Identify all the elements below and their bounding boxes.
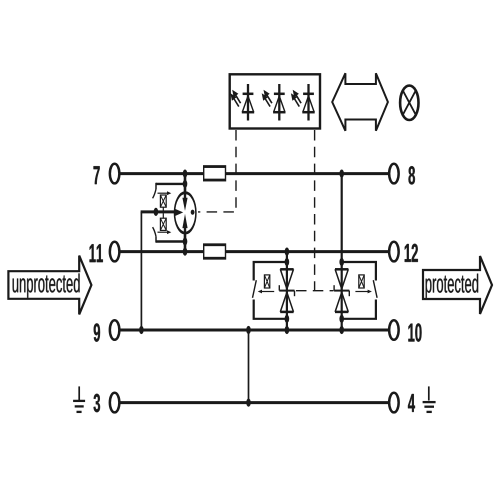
- junction: left branch / row 9-10: [139, 326, 144, 334]
- wire: GDT column: [184, 174, 187, 252]
- disconnect switch for T1 (left): [254, 262, 287, 281]
- pin label 8: [409, 166, 415, 184]
- junction: T1 column / row 11-12: [285, 248, 290, 256]
- LED D1 emission arrows: [236, 95, 241, 103]
- thermal fuse box for T2: [359, 275, 364, 288]
- pin label 7: [94, 166, 100, 184]
- LED D3 triangle: [303, 96, 314, 112]
- LED D2 triangle: [274, 96, 285, 112]
- suppressor column T2: [341, 174, 343, 330]
- LED D3 emission arrows: [296, 95, 301, 103]
- pin label 10: [408, 323, 421, 341]
- junction: GDT column / row 11-12: [183, 248, 188, 256]
- junction: T2 bracket bottom: [339, 315, 344, 323]
- LED D3 vertical lead: [307, 84, 309, 121]
- terminal 4: [389, 393, 399, 413]
- junction: link / row 9-10: [246, 326, 251, 334]
- status double arrow: [332, 73, 388, 131]
- wire row 9-10: [120, 329, 388, 332]
- junction: T2 bracket top: [339, 258, 344, 266]
- protected banner arrow: [423, 256, 492, 314]
- actuation arrow for T1: [261, 291, 274, 293]
- LED D2 emission arrows: [267, 95, 272, 103]
- GDT top electrode arrow: [184, 193, 186, 199]
- LED D1 vertical lead: [247, 84, 249, 121]
- GDT thermal fuse box bottom: [160, 218, 166, 230]
- pin label 3: [94, 394, 100, 412]
- GDT left electrode arrow: [175, 209, 184, 217]
- mechanical linkage dashed line from LED box to GDT: [198, 130, 236, 212]
- LED indicator box U1: [230, 74, 320, 128]
- GDT disconnect bracket bottom: [156, 240, 186, 242]
- LED D1 cathode bar: [243, 93, 254, 96]
- junction: GDT input node: [154, 208, 159, 216]
- LED D2 vertical lead: [278, 84, 280, 121]
- suppressor diode T2 top triangle: [335, 268, 348, 271]
- banner text protected: [426, 274, 479, 298]
- suppressor diode T1 center bar with hooks: [279, 290, 294, 292]
- ground symbol right: [428, 386, 430, 400]
- GDT actuation arrow bottom: [158, 231, 169, 233]
- terminal 12: [389, 242, 399, 262]
- gas discharge tube F1: [174, 193, 195, 233]
- wire row 7-8: [120, 172, 388, 175]
- wire: left branch down from GDT input: [140, 212, 142, 330]
- terminal 7: [110, 164, 120, 184]
- suppressor diode T2 center bar with hooks: [334, 290, 349, 292]
- GDT actuation arrow top: [158, 192, 169, 194]
- wire row 3-4: [120, 401, 388, 404]
- GDT auxiliary electrode dot: [191, 210, 195, 215]
- suppressor diode T1 top triangle: [280, 268, 293, 271]
- junction: GDT bracket top: [183, 180, 188, 188]
- banner text unprotected: [13, 273, 80, 297]
- junction: T1 column / row 9-10: [285, 326, 290, 334]
- resistor R2: [204, 245, 226, 259]
- terminal 8: [389, 164, 399, 184]
- junction: T2 column / row 9-10: [339, 326, 344, 334]
- unprotected banner arrow: [8, 256, 91, 315]
- junction: T1 bracket top: [285, 258, 290, 266]
- remote indicator lamp: [400, 86, 418, 120]
- LED D1 triangle: [242, 96, 253, 112]
- wire: row9 to row3 link: [248, 330, 250, 403]
- wire row 11-12: [120, 250, 388, 253]
- LED D3 cathode bar: [303, 93, 314, 96]
- disconnect switch for T2 (right): [342, 262, 376, 281]
- GDT thermal fuse box top: [160, 195, 166, 207]
- pin label 4: [408, 394, 415, 412]
- terminal 3: [110, 393, 120, 413]
- junction: link / row 3-4: [246, 399, 251, 407]
- GDT disconnect bracket top: [156, 183, 186, 185]
- junction: T1 bracket bottom: [285, 315, 290, 323]
- resistor R1: [204, 167, 226, 181]
- terminal 11: [110, 242, 120, 262]
- junction: T2 column / row 7-8: [339, 170, 344, 178]
- actuation arrow for T2: [355, 291, 368, 293]
- pin label 12: [405, 244, 418, 262]
- thermal fuse box for T1: [264, 275, 269, 288]
- wire into GDT F1: [141, 210, 175, 213]
- ground symbol left: [78, 386, 80, 400]
- junction: GDT column / row 7-8: [183, 170, 188, 178]
- GDT bottom electrode arrow: [184, 227, 186, 233]
- terminal 10: [389, 320, 399, 340]
- pin label 11: [90, 244, 103, 262]
- suppressor column T1: [286, 252, 288, 330]
- LED D2 cathode bar: [274, 93, 285, 96]
- terminal 9: [110, 320, 120, 340]
- suppressor diode T1 bottom triangle: [280, 311, 293, 314]
- mechanical linkage dashed line from LED box to suppressors: [314, 130, 316, 291]
- mechanical linkage dashed line between suppressors: [296, 290, 334, 292]
- suppressor diode T2 bottom triangle: [335, 311, 348, 314]
- pin label 9: [94, 323, 100, 341]
- junction: GDT bracket bottom: [183, 237, 188, 245]
